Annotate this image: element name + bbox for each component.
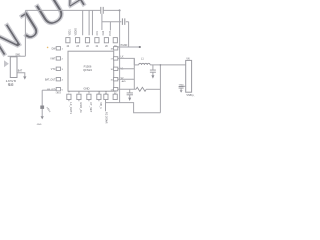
orange speck: [47, 47, 49, 49]
wire: second horizontal rail: [102, 21, 129, 23]
capacitor C2 plates on second rail: [122, 18, 124, 25]
inductor L1: [139, 63, 150, 65]
svg-text:GND: GND: [37, 124, 42, 126]
svg-text:VN: VN: [186, 58, 190, 60]
wire: bottom pin 11 down: [105, 100, 107, 112]
svg-text:VWT: VWT: [50, 59, 56, 61]
bottom pin numbers: [68, 93, 117, 95]
svg-text:VNB入: VNB入: [186, 93, 194, 97]
feedback vertical: [159, 65, 161, 113]
wire: top supply bus: [25, 9, 100, 11]
wire: C1 drop to second rail: [101, 14, 103, 30]
wire: L1 to output box: [150, 64, 186, 66]
svg-text:4: 4: [62, 79, 64, 81]
watermark arrow triangle: [4, 60, 9, 67]
svg-text:CT_SET: CT_SET: [89, 102, 93, 112]
ground arrow under LED: [41, 116, 44, 119]
bottom pin labels (rotated): [69, 102, 103, 114]
node dot at bus and right rail: [119, 9, 121, 11]
left pin labels: [45, 48, 56, 91]
wire: bottom junction to rail and loop: [106, 103, 161, 113]
top pin labels (rotated): [69, 28, 112, 35]
ground arrow at battery negative: [23, 76, 26, 79]
top net label lines: [83, 10, 93, 35]
ground capacitor C7 under row5: [129, 89, 131, 92]
capacitor C1 plates on top bus: [101, 7, 103, 14]
svg-text:VB_1: VB_1: [99, 102, 103, 109]
svg-text:LED1: LED1: [46, 107, 51, 114]
svg-text:PV3: PV3: [110, 30, 112, 35]
top pin squares: [66, 38, 118, 43]
bottom pin stubs: [69, 100, 99, 102]
svg-text:23: 23: [76, 46, 79, 48]
svg-text:AVD: AVD: [122, 80, 127, 83]
resistor R1 zigzag: [136, 87, 146, 91]
junction dot L1 wire: [160, 64, 162, 66]
svg-text:VDD1: VDD1: [69, 29, 71, 36]
wire: second rail right end down to PGND net: [128, 22, 130, 47]
wire: row4 to rail B: [118, 78, 135, 80]
right pin squares: [114, 47, 118, 91]
wire: row3 to rail B: [118, 68, 135, 70]
wire: right vertical rail along IC: [119, 10, 121, 102]
wire: resistor to feedback vertical: [146, 88, 160, 90]
wire: row2 to rail B: [118, 58, 135, 65]
wire: row5 to resistor: [118, 88, 136, 90]
wire: LED branch down: [41, 90, 43, 116]
svg-text:2: 2: [62, 59, 64, 61]
svg-text:GND: GND: [84, 86, 90, 90]
svg-text:DW: DW: [52, 48, 57, 50]
svg-text:BAT: BAT: [18, 69, 23, 72]
svg-text:VTC: VTC: [51, 69, 56, 71]
left pin squares: [56, 47, 60, 91]
svg-text:LX_OUT1: LX_OUT1: [69, 102, 73, 114]
svg-text:GND_A1: GND_A1: [79, 102, 83, 113]
wire: box to ground cap C8: [181, 85, 186, 87]
output terminal box J1: [186, 60, 192, 92]
svg-text:22: 22: [86, 46, 89, 48]
svg-text:CV1: CV1: [97, 30, 99, 35]
wire: top bus right of C1: [103, 9, 119, 11]
svg-text:LED2: LED2: [56, 92, 62, 94]
ground arrow under C7: [128, 98, 131, 101]
ground arrow under C6: [151, 75, 154, 78]
bottom pin squares: [67, 94, 117, 99]
svg-text:3: 3: [62, 69, 64, 71]
ground capacitor C8 at output: [179, 87, 184, 89]
wire: battery top to vertical: [8, 55, 26, 57]
svg-text:5: 5: [62, 89, 64, 91]
top pin numbers: [67, 46, 118, 48]
PGND terminal block: [139, 46, 141, 48]
svg-text:电池: 电池: [8, 82, 14, 87]
svg-text:SW1: SW1: [15, 55, 21, 57]
output capacitor C6: [152, 65, 154, 70]
inductor L1 leadin: [134, 64, 138, 66]
svg-text:L1: L1: [141, 58, 144, 61]
LED D1 body box: [40, 106, 44, 109]
svg-text:CA2: CA2: [102, 30, 105, 35]
svg-text:1: 1: [62, 48, 64, 50]
right pin numbers: [110, 48, 113, 91]
svg-text:20: 20: [105, 46, 108, 48]
svg-text:QFN24: QFN24: [83, 68, 92, 72]
svg-text:24: 24: [67, 46, 70, 48]
LED branch: wire from pin 5 left: [42, 89, 56, 91]
rail B vertical: [133, 58, 135, 89]
watermark: [0, 0, 97, 67]
svg-text:21: 21: [96, 46, 99, 48]
wire: stub from rail down to net label: [109, 22, 111, 31]
wire: vertical from bus down to battery switch: [24, 10, 26, 56]
battery BT1 box: [10, 57, 17, 78]
ground arrow at output: [180, 90, 183, 92]
wire: battery negative to ground: [17, 73, 25, 77]
wire: PGND row: [118, 46, 139, 48]
svg-text:R2 200kR: R2 200kR: [105, 112, 109, 124]
svg-text:VDDIO: VDDIO: [76, 28, 78, 35]
left pin numbers: [62, 48, 64, 91]
svg-text:BAT_OUT: BAT_OUT: [45, 78, 56, 81]
IC U1 body: [68, 51, 114, 91]
